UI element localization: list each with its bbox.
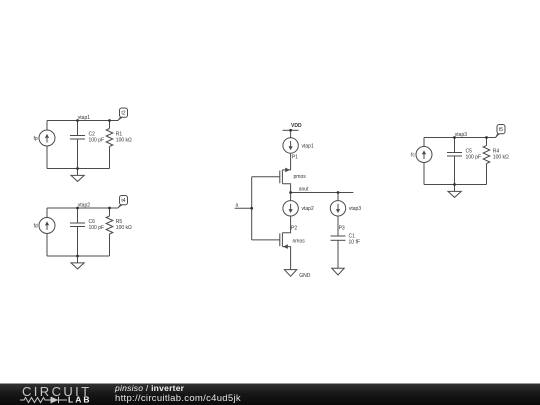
source P3 (vtap3): [330, 201, 345, 216]
transistor PMOS pmos: [280, 168, 291, 193]
wire aout to P3: [337, 193, 339, 201]
label vtap2: [302, 206, 314, 212]
svg-text:nmos: nmos: [293, 238, 306, 244]
power VDD: [283, 129, 299, 131]
wire bottom rail: [424, 184, 487, 186]
value R5: [116, 219, 132, 231]
label vtap3: [349, 206, 361, 212]
labels block 2: [34, 198, 133, 231]
svg-text:10 fF: 10 fF: [349, 240, 360, 246]
capacitor C6: [70, 208, 85, 256]
footer title pinsiso / inverter: [114, 383, 185, 393]
svg-text:vtap1: vtap1: [302, 143, 314, 149]
svg-text:GND: GND: [299, 273, 311, 279]
svg-text:LAB: LAB: [68, 395, 91, 405]
label fd: [34, 224, 38, 230]
ground GND: [284, 270, 296, 277]
flag text t5: [499, 127, 503, 133]
svg-text:pinsiso / inverter: pinsiso / inverter: [114, 383, 185, 393]
svg-text:P3: P3: [339, 226, 345, 232]
value R4: [493, 149, 509, 161]
svg-text:fp: fp: [34, 136, 38, 142]
label P2: [291, 226, 297, 232]
svg-text:100 kΩ: 100 kΩ: [116, 225, 132, 231]
label vtap1: [302, 143, 314, 149]
junction bottom-C5: [453, 183, 456, 186]
svg-text:100 pF: 100 pF: [89, 138, 105, 144]
label fc: [411, 153, 415, 159]
wire C1 to ground: [337, 240, 339, 268]
label P1: [292, 154, 298, 160]
junction vtap1-C2: [76, 119, 79, 122]
ground: [448, 185, 461, 198]
resistor R4: [483, 138, 490, 185]
wire P3 to C1: [337, 216, 339, 236]
svg-text:fd: fd: [34, 224, 38, 230]
label nmos: [293, 238, 306, 244]
flag text t4: [121, 198, 125, 204]
value C6: [89, 219, 105, 231]
current source fc: [416, 147, 432, 163]
svg-text:100 kΩ: 100 kΩ: [493, 155, 509, 161]
flag t4: [118, 196, 128, 209]
wire top rail vtap1: [47, 120, 118, 122]
wire aout rail: [291, 192, 354, 194]
junction vtap3-R4: [485, 136, 488, 139]
logo LAB text: [68, 395, 91, 405]
wire top rail vtap2: [47, 207, 118, 209]
current source fd: [39, 218, 55, 234]
label fp: [34, 136, 38, 142]
svg-text:VDD: VDD: [291, 123, 302, 129]
svg-text:vtap3: vtap3: [349, 206, 361, 212]
svg-text:100 pF: 100 pF: [89, 225, 105, 231]
svg-text:aout: aout: [299, 187, 309, 193]
wire bottom rail: [47, 168, 110, 170]
source P2 (vtap2): [283, 201, 298, 216]
value C5: [466, 149, 482, 161]
junction vtap1-R1: [108, 119, 111, 122]
junction bottom-C6: [76, 255, 79, 258]
svg-text:vtap2: vtap2: [302, 206, 314, 212]
node vtap2: [78, 203, 90, 209]
wire gate bus: [251, 177, 253, 240]
wire left branch: [423, 138, 425, 185]
wire gate NMOS: [252, 239, 280, 241]
labels block 3: [411, 127, 509, 161]
logo wire + resistor + diode: [20, 397, 67, 403]
labels middle: [236, 123, 362, 279]
labels block 1: [34, 111, 133, 144]
node a: [236, 202, 239, 208]
svg-text:vtap3: vtap3: [455, 132, 467, 138]
svg-text:a: a: [236, 202, 239, 208]
transistor NMOS nmos: [280, 233, 291, 270]
svg-text:P2: P2: [291, 226, 297, 232]
svg-text:P1: P1: [292, 154, 298, 160]
junction vtap2-C6: [76, 207, 79, 210]
value R1: [116, 132, 132, 144]
flag t5: [496, 125, 506, 138]
resistor R5: [106, 208, 113, 256]
junction vtap2-R5: [108, 207, 111, 210]
junction a-gatebus: [250, 207, 253, 210]
svg-text:pmos: pmos: [294, 174, 307, 180]
svg-text:100 kΩ: 100 kΩ: [116, 138, 132, 144]
footer url: [115, 393, 241, 404]
value C1: [349, 234, 360, 246]
wire bottom rail: [47, 255, 110, 257]
junction bottom-C2: [76, 167, 79, 170]
wire gate PMOS: [252, 176, 280, 178]
flag t2: [118, 108, 128, 121]
ground (right): [332, 268, 344, 275]
svg-text:http://circuitlab.com/c4ud5jk: http://circuitlab.com/c4ud5jk: [115, 393, 241, 404]
resistor R1: [106, 121, 113, 169]
svg-text:fc: fc: [411, 153, 415, 159]
svg-text:vtap2: vtap2: [78, 203, 90, 209]
node vtap1: [78, 115, 90, 121]
wire P1 to PMOS source: [282, 153, 290, 170]
label VDD: [291, 123, 302, 129]
source P1 (vtap1): [283, 138, 298, 153]
wire P2 to NMOS drain: [282, 216, 290, 233]
capacitor C5: [447, 138, 462, 185]
svg-text:t2: t2: [121, 111, 125, 117]
capacitor C1: [331, 236, 346, 240]
ground: [71, 256, 84, 269]
svg-text:t4: t4: [121, 198, 125, 204]
node vtap3: [455, 132, 467, 138]
label GND: [299, 273, 311, 279]
wire top rail vtap3: [424, 137, 496, 139]
node aout: [299, 187, 309, 193]
junction aout-P3: [337, 191, 340, 194]
wire input a: [235, 207, 252, 209]
logo CIRCUIT text: [22, 384, 92, 399]
wire aout to P2: [290, 193, 292, 201]
junction vtap3-C5: [453, 136, 456, 139]
flag text t2: [121, 111, 125, 117]
wire VDD to P1: [290, 130, 292, 138]
wire left branch: [46, 208, 48, 256]
current source fp: [39, 130, 55, 146]
svg-text:100 pF: 100 pF: [466, 155, 482, 161]
junction VDD: [289, 129, 292, 132]
label P3: [339, 226, 345, 232]
junction aout-P1: [289, 191, 292, 194]
label pmos: [294, 174, 307, 180]
capacitor C2: [70, 121, 85, 169]
ground: [71, 169, 84, 182]
svg-text:vtap1: vtap1: [78, 115, 90, 121]
svg-text:t5: t5: [499, 127, 503, 133]
wire left branch: [46, 121, 48, 169]
value C2: [89, 132, 105, 144]
